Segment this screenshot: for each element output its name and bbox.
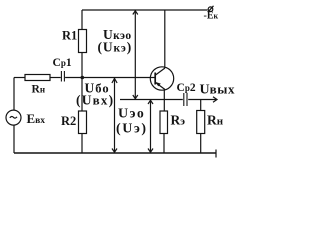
svg-text:Rн: Rн <box>32 84 46 96</box>
wire emitter output row <box>120 99 217 101</box>
wire R2 column top <box>81 78 83 112</box>
capacitor Cp1 <box>60 71 62 82</box>
source Eвх circle <box>6 110 21 125</box>
node base junction dot <box>81 76 85 80</box>
svg-text:R2: R2 <box>61 114 76 128</box>
svg-text:Rн: Rн <box>207 113 224 128</box>
svg-text:(Uкэ): (Uкэ) <box>98 40 133 55</box>
arrow Uкэо (rail to emitter row) <box>134 11 136 100</box>
wire left column upper <box>13 78 15 111</box>
wire Rн bottom <box>200 134 202 154</box>
arrow Uэо (emitter row to bottom rail) <box>150 100 152 153</box>
svg-text:-Eк: -Eк <box>204 11 219 22</box>
resistor Rн <box>197 111 205 134</box>
wire left column lower <box>13 125 15 153</box>
resistor Rэ <box>160 111 168 134</box>
wire R1 bottom <box>81 53 83 78</box>
svg-text:Cр1: Cр1 <box>53 57 72 69</box>
Uвых arrowhead right <box>213 97 217 102</box>
capacitor Cp2 gap mask <box>183 96 188 103</box>
bottom rail end tick <box>215 150 217 158</box>
wire collector to top rail <box>164 10 166 68</box>
arrow Uбо (base row to bottom rail) <box>114 78 116 153</box>
transistor collector diagonal <box>156 68 166 75</box>
capacitor Cp2 <box>183 93 185 106</box>
terminal slash <box>208 6 214 12</box>
transistor emitter arrow (PNP, toward base) <box>156 82 161 86</box>
wire top rail <box>82 9 208 11</box>
transistor emitter diagonal <box>156 83 166 90</box>
svg-text:Rэ: Rэ <box>171 113 186 128</box>
resistor R1 <box>79 30 87 53</box>
wire R1 column top <box>81 10 83 30</box>
wire base row <box>82 77 155 79</box>
wire bottom rail <box>14 152 216 154</box>
transistor base bar <box>154 73 156 85</box>
svg-text:Uэо: Uэо <box>118 106 145 122</box>
wire Rи to Cp1 <box>50 77 61 79</box>
svg-text:Uвых: Uвых <box>200 82 236 98</box>
wire Rэ bottom <box>163 134 165 154</box>
svg-text:(Uэ): (Uэ) <box>116 121 148 137</box>
svg-text:R1: R1 <box>62 29 77 43</box>
wire input row left <box>14 77 25 79</box>
terminal -Eк circle <box>208 7 213 12</box>
transistor VT1 circle <box>150 67 173 90</box>
svg-text:Cр2: Cр2 <box>177 82 196 94</box>
wire Rн top <box>200 100 202 111</box>
resistor R2 <box>79 111 87 134</box>
resistor Rи <box>25 75 50 81</box>
svg-text:(Uвх): (Uвх) <box>76 93 114 108</box>
wire Cp1 to base node <box>65 77 82 79</box>
wire R2 bottom <box>81 134 83 154</box>
wire emitter down through row to Rэ <box>163 90 165 112</box>
source sine symbol <box>10 116 17 118</box>
